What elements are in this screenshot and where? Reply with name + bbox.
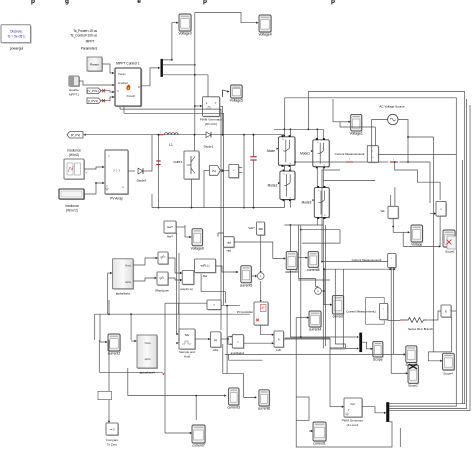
svg-text:AC Voltage Source: AC Voltage Source [379,105,405,109]
svg-text:Scope4: Scope4 [443,372,453,376]
svg-text:current7: current7 [192,444,205,448]
svg-text:To Zero: To Zero [107,442,118,446]
svg-text:PanelO: PanelO [127,94,136,98]
svg-text:Ts_Power=10 us: Ts_Power=10 us [73,29,97,33]
svg-text:p: p [203,0,207,5]
svg-text:Diode1: Diode1 [204,145,214,149]
svg-text:Series RLC Branch: Series RLC Branch [408,327,433,331]
svg-text:m: m [122,186,124,189]
svg-text:alpha: alpha [145,358,152,361]
svg-text:Voltage6: Voltage6 [191,246,204,250]
svg-text:300: 300 [258,227,263,231]
svg-text:g: g [65,0,69,5]
svg-text:amp/(u,w): amp/(u,w) [180,287,193,291]
svg-text:Enable: Enable [69,88,79,92]
svg-text:MPPT: MPPT [86,40,95,44]
svg-text:current2: current2 [108,352,121,356]
svg-text:current1: current1 [313,442,326,446]
svg-text:Hw?: Hw? [167,225,173,229]
svg-text:Enabled: Enabled [118,81,128,85]
svg-text:MPPT1: MPPT1 [69,92,79,96]
svg-text:Scope2: Scope2 [408,384,418,388]
svg-text:Voltage: Voltage [411,243,422,247]
svg-text:Diode2: Diode2 [137,179,147,183]
svg-text:Irradiance: Irradiance [65,204,79,208]
svg-text:Mode2: Mode2 [268,184,278,188]
svg-text:alpha/beta: alpha/beta [116,292,130,296]
svg-text:current4: current4 [309,328,322,332]
svg-text:+: + [260,274,262,278]
svg-text:Voltage1: Voltage1 [350,132,363,136]
svg-text:Voltage3: Voltage3 [178,32,191,36]
svg-text:Hw?: Hw? [167,235,173,239]
svg-text:Param: Param [118,72,126,76]
svg-text:Ts_Control=100 us: Ts_Control=100 us [70,34,97,38]
svg-text:V: V [86,171,88,175]
svg-text:current8: current8 [307,268,320,272]
svg-text:current: current [333,315,344,319]
svg-text:Sample and: Sample and [179,350,195,354]
svg-text:Mode1: Mode1 [300,151,310,155]
svg-text:|u|: |u| [214,338,217,342]
svg-text:current9: current9 [285,270,298,274]
svg-text:LVF: LVF [276,348,281,352]
svg-text:PI Controller: PI Controller [237,310,253,314]
svg-text:Scope1: Scope1 [445,250,455,254]
svg-text:Mode: Mode [267,149,275,153]
svg-text:Param: Param [90,63,99,67]
svg-text:(DC-DC): (DC-DC) [205,122,217,126]
svg-text:p: p [331,0,335,5]
svg-text:Mode3: Mode3 [302,201,312,205]
svg-text:Current Measurement2: Current Measurement2 [335,152,365,156]
svg-text:Voltage5: Voltage5 [230,99,243,103]
svg-text:e: e [137,0,141,5]
svg-text:[V_PV1]: [V_PV1] [87,89,98,93]
svg-text:(W/m2): (W/m2) [69,153,79,157]
svg-text:? ? ?: ? ? ? [113,169,120,173]
svg-text:>= 0: >= 0 [109,428,115,432]
svg-text:current6: current6 [258,407,271,411]
svg-text:alpha: alpha [125,281,132,284]
svg-text:D: D [138,85,140,89]
svg-text:Scope: Scope [373,358,383,362]
svg-text:w(PLL): w(PLL) [201,264,210,268]
svg-text:alpha/beta4: alpha/beta4 [139,371,155,375]
svg-text:[I_PV1]: [I_PV1] [88,99,98,103]
svg-text:Vbeta: Vbeta [125,265,132,268]
svg-text:Parameters: Parameters [81,47,98,51]
svg-text:current5: current5 [240,283,253,287]
svg-text:current3: current3 [227,406,240,410]
svg-text:PWM Generator: PWM Generator [200,118,222,122]
svg-text:MPPT Control 1: MPPT Control 1 [116,62,140,66]
svg-text:Uref: Uref [350,403,355,406]
svg-text:rad: rad [227,241,231,245]
svg-text:Discrete,: Discrete, [10,30,23,34]
svg-text:PV Array: PV Array [110,197,123,201]
svg-text:(W/m^2): (W/m^2) [66,208,78,212]
svg-text:K: K [445,310,447,314]
svg-text:p: p [31,0,35,5]
svg-text:V: V [117,89,119,93]
svg-text:Irradiance: Irradiance [67,149,81,153]
svg-text:Current Measurement1: Current Measurement1 [346,310,376,314]
svg-text:Vbeta: Vbeta [144,342,151,345]
svg-text:L1: L1 [169,143,173,147]
svg-text:Compare: Compare [106,438,119,442]
svg-text:X: X [278,338,280,342]
svg-text:Voltage4: Voltage4 [258,33,271,37]
svg-text:Ts = 5e-05 s.: Ts = 5e-05 s. [7,35,25,39]
svg-text:Vdc*: Vdc* [248,226,255,230]
svg-text:Ir: Ir [108,155,110,158]
svg-text:Abs: Abs [213,348,219,352]
svg-text:IGBT1: IGBT1 [174,160,183,164]
svg-text:PWM Generator: PWM Generator [342,419,364,423]
svg-text:(3-Level): (3-Level) [347,423,359,427]
svg-text:powergui: powergui [10,47,24,51]
svg-text:(Rate)p,we: (Rate)p,we [155,289,169,293]
svg-text:Hold: Hold [184,354,191,358]
svg-text:rad: rad [227,249,232,253]
svg-text:S/H: S/H [185,333,190,337]
svg-text:[P_PV]: [P_PV] [71,133,81,137]
svg-text:+: + [317,289,319,293]
svg-text:Vab: Vab [380,210,385,213]
